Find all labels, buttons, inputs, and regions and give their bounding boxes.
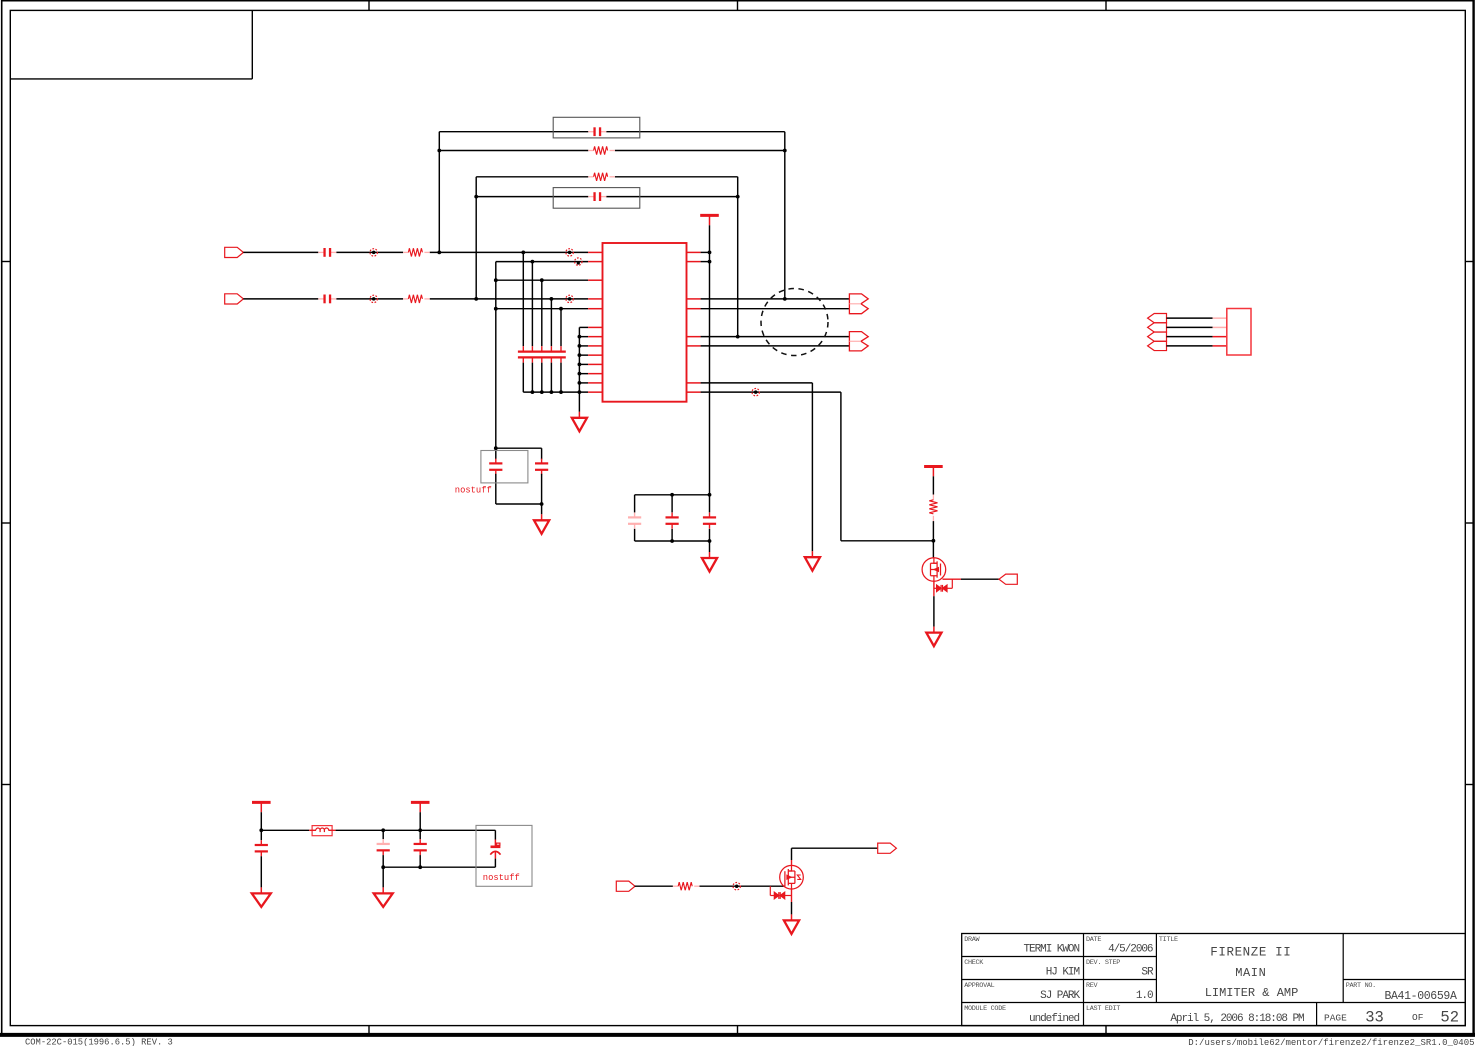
svg-text:TERMI KWON: TERMI KWON: [1023, 944, 1079, 956]
svg-text:D:/users/mobile62/mentor/firen: D:/users/mobile62/mentor/firenze2/firenz…: [1188, 1038, 1474, 1046]
svg-text:HJ KIM: HJ KIM: [1046, 967, 1080, 979]
svg-text:FIRENZE II: FIRENZE II: [1210, 946, 1291, 960]
svg-text:CHECK: CHECK: [964, 959, 984, 967]
svg-text:BA41-00659A: BA41-00659A: [1384, 990, 1457, 1003]
svg-text:COM-22C-015(1996.6.5) REV. 3: COM-22C-015(1996.6.5) REV. 3: [25, 1037, 173, 1046]
svg-text:PART NO.: PART NO.: [1346, 982, 1376, 990]
svg-text:APPROVAL: APPROVAL: [964, 982, 994, 990]
svg-text:PAGE: PAGE: [1324, 1012, 1347, 1023]
svg-text:nostuff: nostuff: [455, 485, 492, 495]
svg-text:LIMITER & AMP: LIMITER & AMP: [1205, 986, 1299, 1000]
svg-text:DRAW: DRAW: [964, 936, 980, 944]
svg-text:1.0: 1.0: [1136, 990, 1153, 1002]
svg-text:April 5, 2006 8:18:08 PM: April 5, 2006 8:18:08 PM: [1170, 1013, 1304, 1025]
svg-text:MODULE CODE: MODULE CODE: [964, 1005, 1006, 1013]
svg-text:SJ PARK: SJ PARK: [1040, 990, 1080, 1002]
svg-text:nostuff: nostuff: [483, 873, 520, 883]
svg-text:REV: REV: [1086, 982, 1099, 990]
svg-text:DATE: DATE: [1086, 936, 1101, 944]
svg-text:DEV. STEP: DEV. STEP: [1086, 959, 1120, 967]
svg-text:33: 33: [1365, 1009, 1384, 1027]
svg-text:LAST EDIT: LAST EDIT: [1086, 1005, 1120, 1013]
svg-text:undefined: undefined: [1029, 1013, 1079, 1025]
svg-text:OF: OF: [1412, 1012, 1424, 1023]
svg-text:SR: SR: [1141, 967, 1154, 979]
svg-text:TITLE: TITLE: [1159, 936, 1178, 944]
svg-text:4/5/2006: 4/5/2006: [1108, 944, 1153, 956]
svg-text:52: 52: [1440, 1009, 1459, 1027]
svg-text:MAIN: MAIN: [1235, 966, 1266, 980]
